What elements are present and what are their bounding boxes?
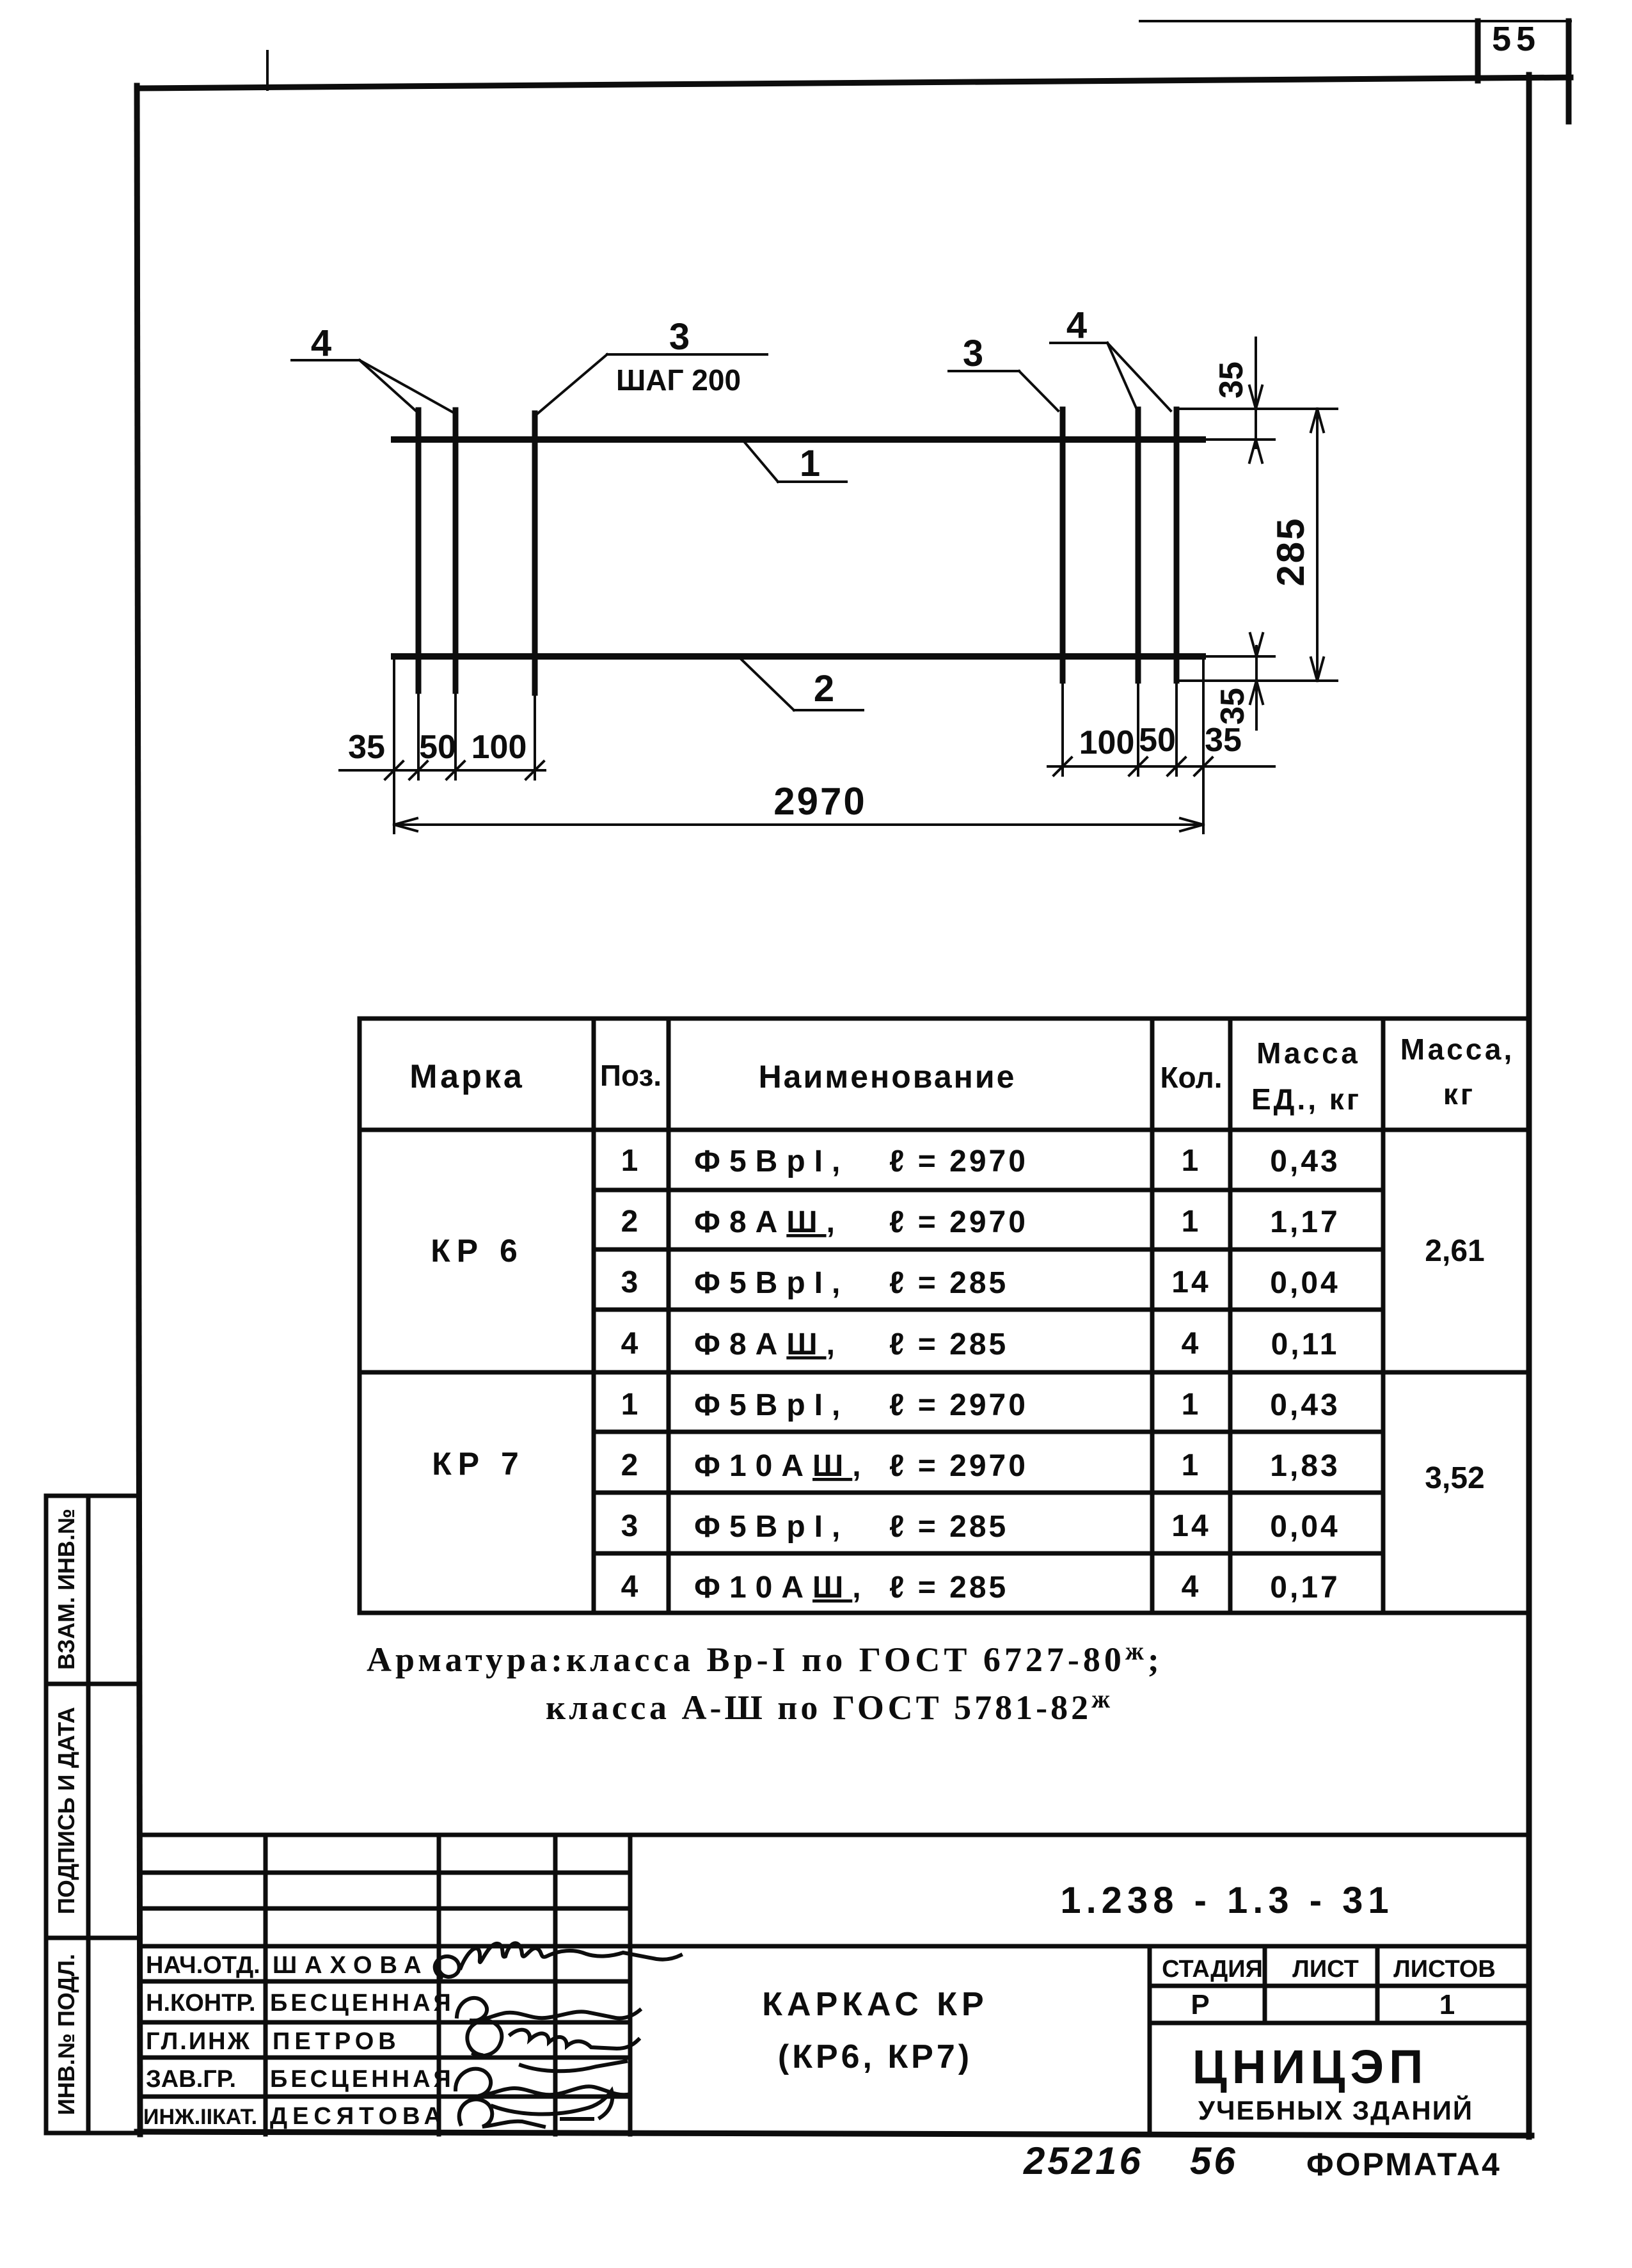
label 4 right xyxy=(1066,305,1087,346)
title block grid xyxy=(139,1835,1529,2134)
organization name xyxy=(1192,2040,1429,2093)
dim label 50 left xyxy=(419,729,456,766)
svg-text:ИНВ.№ ПОДЛ.: ИНВ.№ ПОДЛ. xyxy=(53,1954,79,2115)
leader 4 right xyxy=(1050,343,1171,411)
mass KR7 xyxy=(1425,1461,1484,1495)
title block role labels xyxy=(143,1952,260,2129)
extension line bar2 right xyxy=(1205,655,1274,658)
stage value P xyxy=(1191,1989,1209,2020)
dim label 100 left xyxy=(471,729,527,766)
dim label 35 bottom right rotated xyxy=(1214,688,1251,725)
svg-text:БЕСЦЕННАЯ: БЕСЦЕННАЯ xyxy=(270,2066,454,2093)
svg-text:ДЕСЯТОВА: ДЕСЯТОВА xyxy=(270,2103,447,2130)
mass KR6 xyxy=(1425,1234,1484,1268)
table header labels xyxy=(409,1033,1514,1116)
signature desyatova xyxy=(459,2099,592,2127)
sheet number top line xyxy=(1140,20,1571,22)
strip label podpis i data xyxy=(53,1707,79,1914)
label 4 left xyxy=(311,322,331,364)
dimension 285 xyxy=(1311,409,1324,681)
extension line top right stirrup xyxy=(1179,408,1337,410)
svg-text:НАЧ.ОТД.: НАЧ.ОТД. xyxy=(146,1952,260,1979)
leader 2 xyxy=(740,658,863,710)
note armature line 1 xyxy=(367,1637,1163,1679)
leader 3 left xyxy=(535,354,767,416)
svg-text:1.238 - 1.3 - 31: 1.238 - 1.3 - 31 xyxy=(1060,1880,1393,1921)
svg-text:ШАХОВА: ШАХОВА xyxy=(273,1952,429,1979)
svg-text:ФОРМАТА4: ФОРМАТА4 xyxy=(1306,2146,1501,2182)
handwritten 25216 56 xyxy=(1023,2139,1238,2182)
svg-text:25216: 25216 xyxy=(1023,2139,1143,2182)
leader 1 xyxy=(743,441,846,482)
sheet number 55 xyxy=(1492,20,1541,58)
svg-text:Р: Р xyxy=(1191,1989,1209,2020)
svg-text:БЕСЦЕННАЯ: БЕСЦЕННАЯ xyxy=(270,1990,454,2017)
document number 1.238-1.3-31 xyxy=(1060,1880,1393,1921)
svg-text:ПОДПИСЬ И ДАТА: ПОДПИСЬ И ДАТА xyxy=(53,1707,79,1914)
title block names xyxy=(270,1952,454,2130)
dim label 35 right horizontal xyxy=(1205,722,1242,759)
parts table grid xyxy=(360,1019,1529,1613)
svg-text:ПЕТРОВ: ПЕТРОВ xyxy=(273,2028,400,2055)
dim label 285 rotated xyxy=(1269,516,1312,586)
extension line bottom right stirrup xyxy=(1179,679,1337,682)
svg-text:ЛИСТОВ: ЛИСТОВ xyxy=(1393,1956,1496,1983)
dimension line 100 50 35 right xyxy=(1048,757,1274,775)
sheet number box xyxy=(1478,21,1569,122)
left margin strip frame xyxy=(46,1496,139,2133)
table rows text xyxy=(621,1144,1340,1605)
svg-text:ГЛ.ИНЖ: ГЛ.ИНЖ xyxy=(146,2028,251,2055)
label 1 xyxy=(800,443,820,484)
dimension 2970 xyxy=(394,818,1203,831)
leader 4 left xyxy=(292,360,454,413)
project title kr6 kr7 xyxy=(778,2038,972,2075)
strip label inv podl xyxy=(53,1954,79,2115)
stage header listov xyxy=(1393,1956,1496,1983)
label 2 xyxy=(814,668,834,710)
extension line bar1 right xyxy=(1205,438,1274,441)
bar 1 top longitudinal xyxy=(394,436,1203,443)
label 3 right xyxy=(963,333,983,374)
label 3 left xyxy=(669,316,690,358)
dim label 35 top right rotated xyxy=(1213,361,1250,399)
svg-text:ЛИСТ: ЛИСТ xyxy=(1292,1956,1359,1983)
svg-text:(КР6, КР7): (КР6, КР7) xyxy=(778,2038,972,2075)
extension lines bottom left xyxy=(394,660,535,833)
project title karkas xyxy=(762,1986,988,2023)
format a4 label xyxy=(1306,2146,1501,2182)
svg-text:УЧЕБНЫХ ЗДАНИЙ: УЧЕБНЫХ ЗДАНИЙ xyxy=(1198,2095,1473,2125)
strip label vzam inv xyxy=(53,1509,79,1670)
leader 3 right xyxy=(949,371,1058,411)
dim label 100 right xyxy=(1079,724,1135,761)
dim label 50 right xyxy=(1139,722,1176,759)
dimension line 35 50 100 left xyxy=(340,761,545,779)
dim label 2970 xyxy=(773,780,866,823)
mark KR6 xyxy=(431,1233,524,1269)
signature bestsennaya 1 xyxy=(457,1998,640,2021)
svg-text:56: 56 xyxy=(1190,2139,1238,2182)
svg-text:ИНЖ.IIКАТ.: ИНЖ.IIКАТ. xyxy=(143,2105,257,2129)
signature petrov xyxy=(467,2020,638,2071)
drawing frame border xyxy=(137,75,1571,2137)
extension lines bottom right xyxy=(1063,660,1203,833)
transverse bar left C xyxy=(532,413,538,693)
mark KR7 xyxy=(432,1446,525,1482)
stage header stadiya xyxy=(1162,1956,1263,1983)
lists value 1 xyxy=(1439,1989,1455,2020)
svg-text:Н.КОНТР.: Н.КОНТР. xyxy=(146,1990,256,2017)
signature bestsennaya 2 xyxy=(456,2069,627,2118)
transverse bar right C xyxy=(1174,409,1180,681)
transverse bar left A xyxy=(416,410,422,691)
svg-text:1: 1 xyxy=(1439,1989,1455,2020)
transverse bar right A xyxy=(1060,409,1066,681)
bar 2 bottom longitudinal xyxy=(394,653,1203,660)
label shag 200 xyxy=(616,363,741,397)
svg-text:ЦНИЦЭП: ЦНИЦЭП xyxy=(1192,2040,1429,2093)
dim label 35 left xyxy=(348,729,385,766)
dimension 35 top right xyxy=(1249,338,1262,463)
svg-text:СТАДИЯ: СТАДИЯ xyxy=(1162,1956,1263,1983)
svg-text:ЗАВ.ГР.: ЗАВ.ГР. xyxy=(146,2066,236,2093)
transverse bar right B xyxy=(1136,409,1141,681)
svg-text:КАРКАС КР: КАРКАС КР xyxy=(762,1986,988,2023)
registration tick top border xyxy=(266,51,269,90)
transverse bar left B xyxy=(453,410,459,691)
organization name line 2 xyxy=(1198,2095,1473,2125)
svg-text:ВЗАМ. ИНВ.№: ВЗАМ. ИНВ.№ xyxy=(53,1509,79,1670)
note armature line 2 xyxy=(546,1685,1113,1727)
signature shahova xyxy=(435,1943,681,1977)
dimension 35 bottom right xyxy=(1250,633,1263,729)
stage header list xyxy=(1292,1956,1359,1983)
